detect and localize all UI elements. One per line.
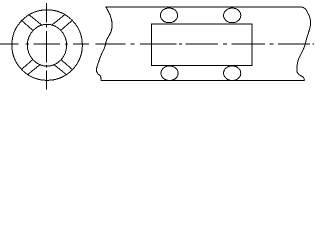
shaft centerline (side view, dash-dot) [95,43,314,45]
outer circle (bearing outer ring, end view) [12,10,83,81]
ball top-right (side view) [224,8,241,23]
right break line (wavy) [297,7,311,80]
ball stroke SE upper [61,60,73,70]
horizontal centerline (left view, dash-dot) [0,43,89,45]
ball stroke NW lower [21,20,33,30]
shaft bottom line (side view) [101,79,305,81]
ball stroke NE lower [61,20,73,30]
left break line (wavy) [96,7,112,80]
shaft top line (side view) [106,6,303,8]
sleeve rectangle (side view) [152,24,252,65]
ball bottom-left (side view) [161,66,178,81]
ball stroke NW upper [29,14,42,25]
ball stroke SE lower [54,64,67,75]
ball stroke SW lower [27,64,40,75]
ball bottom-right (side view) [224,66,241,81]
inner circle (bore, end view) [27,24,66,66]
ball stroke SW upper [21,60,33,70]
ball top-left (side view) [160,8,177,23]
ball stroke NE upper [52,14,65,25]
vertical centerline (left view, dash-dot) [46,3,48,89]
